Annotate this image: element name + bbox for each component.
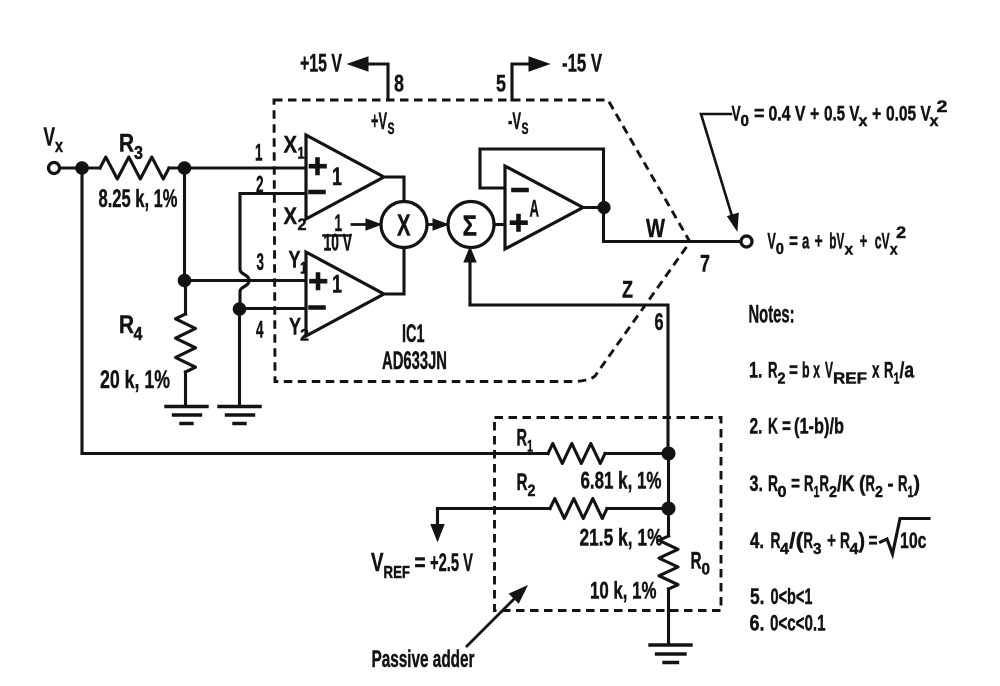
svg-text:=: = — [754, 103, 764, 126]
svg-text:REF: REF — [384, 562, 411, 582]
wire summer bottom arrow stem — [468, 261, 471, 305]
svg-text:2: 2 — [778, 371, 786, 388]
svg-text:R: R — [119, 311, 134, 339]
svg-text:2: 2 — [937, 97, 948, 116]
svg-text:x: x — [872, 358, 880, 383]
svg-text:(1-b)/b: (1-b)/b — [794, 414, 844, 439]
svg-text:0.4 V: 0.4 V — [769, 103, 806, 126]
IC1 dashed outline — [274, 100, 690, 382]
output terminal — [741, 236, 752, 247]
svg-text:=: = — [869, 528, 878, 553]
arrow multiplier to summer — [428, 223, 436, 226]
node after R3 — [178, 161, 192, 175]
wire A output to node — [583, 206, 604, 209]
wire X buffer output to multiplier — [384, 177, 404, 202]
svg-text:b x: b x — [802, 358, 820, 383]
wire feedback loop of op-amp A — [480, 149, 604, 208]
svg-text:0.05 V: 0.05 V — [886, 103, 931, 126]
svg-text:x: x — [55, 136, 63, 156]
svg-text:0: 0 — [778, 484, 787, 501]
svg-text:Notes:: Notes: — [749, 301, 795, 329]
wire between R1 and R2 nodes down to R0 — [667, 454, 670, 537]
svg-text:x: x — [845, 242, 854, 259]
svg-text:V: V — [825, 358, 833, 383]
wire Z from summer arrow to pin 6 — [470, 305, 668, 454]
arrowhead +15V — [348, 57, 368, 71]
svg-text:0: 0 — [702, 560, 711, 579]
svg-text:1: 1 — [332, 163, 342, 191]
wire Y2 node to ground — [238, 309, 241, 405]
minus sign in A — [514, 188, 527, 193]
plus sign in X buffer — [311, 160, 325, 174]
wire from R3 node down to Y1 node — [183, 168, 186, 281]
svg-text:0<c<0.1: 0<c<0.1 — [770, 611, 826, 636]
svg-text:2: 2 — [875, 484, 883, 501]
plus sign in Y buffer — [312, 275, 326, 289]
svg-text:20 k, 1%: 20 k, 1% — [100, 366, 170, 394]
svg-text:=: = — [789, 229, 798, 254]
svg-text:R: R — [884, 358, 894, 383]
svg-text:3: 3 — [813, 541, 822, 558]
op-amp buffer Y (Y1/Y2) — [306, 252, 384, 336]
svg-text:1.: 1. — [749, 358, 763, 383]
wire VREF arrow stem — [436, 509, 439, 526]
ground under R4 — [166, 407, 207, 424]
wire pin 4 (Y2 input) — [240, 307, 307, 310]
arrow into multiplier — [352, 223, 368, 226]
svg-text:-15 V: -15 V — [562, 50, 602, 78]
svg-text:4: 4 — [256, 317, 264, 344]
arrowhead leader — [728, 213, 739, 230]
svg-text:AD633JN: AD633JN — [382, 347, 447, 375]
arrow to passive adder box — [467, 597, 516, 646]
arrowhead into summer — [464, 248, 476, 263]
fraction bar of 1/10V — [324, 234, 349, 237]
svg-text:/(: /( — [789, 528, 804, 553]
svg-text:4.: 4. — [750, 528, 764, 553]
wire R3 to pin 1 (X1 input) — [169, 166, 306, 169]
ground under X2/Y2 — [219, 407, 260, 424]
svg-text:2: 2 — [896, 223, 906, 242]
svg-text:=: = — [789, 358, 798, 383]
svg-text:+15 V: +15 V — [300, 50, 342, 78]
svg-text:K: K — [768, 414, 778, 439]
note 4 — [750, 528, 927, 558]
svg-text:V: V — [44, 122, 56, 152]
wire R0 to ground — [667, 589, 670, 644]
wire left vertical from Vx node down to R1 row — [80, 168, 83, 454]
svg-text:R: R — [517, 425, 528, 452]
svg-text:): ) — [859, 528, 866, 553]
svg-text:0: 0 — [741, 113, 750, 130]
svg-text:R: R — [804, 471, 814, 496]
svg-text:0: 0 — [776, 241, 784, 258]
svg-text:+: + — [860, 229, 868, 254]
svg-text:+: + — [827, 528, 836, 553]
wire Y buffer output to multiplier — [384, 248, 404, 295]
svg-text:X: X — [397, 208, 411, 243]
arrowhead VREF down — [431, 525, 444, 542]
wire W output to terminal pin 7 — [604, 208, 741, 242]
svg-text:2: 2 — [300, 326, 309, 345]
svg-text:R: R — [119, 130, 134, 158]
svg-text:S: S — [522, 119, 529, 138]
svg-text:R: R — [866, 471, 876, 496]
wire hop to Y2 node — [238, 292, 241, 309]
svg-text:x: x — [890, 242, 898, 259]
power pin 8 wire — [367, 64, 388, 100]
resistor R1 — [548, 444, 605, 464]
svg-text:8.25 k, 1%: 8.25 k, 1% — [99, 185, 178, 213]
svg-text:2: 2 — [528, 481, 536, 500]
arrowhead passive adder — [510, 586, 528, 603]
note 2 — [750, 414, 845, 439]
resistor R0 — [659, 536, 678, 589]
summer circle — [448, 202, 494, 248]
svg-text:cV: cV — [875, 229, 890, 254]
svg-text:/K: /K — [837, 471, 855, 496]
minus sign in Y buffer — [311, 305, 324, 310]
svg-text:+: + — [872, 103, 881, 126]
svg-text:=: = — [791, 471, 800, 496]
svg-text:R: R — [691, 548, 702, 575]
svg-text:+: + — [810, 103, 819, 126]
svg-text:0.5 V: 0.5 V — [824, 103, 860, 126]
svg-text:x: x — [859, 113, 868, 130]
svg-text:3: 3 — [134, 143, 143, 163]
node W output — [597, 201, 610, 214]
svg-text:W: W — [646, 213, 665, 243]
node X2/Y2 ground junction — [233, 302, 247, 316]
svg-text:V: V — [371, 547, 384, 577]
wire hop over Y1 wire — [240, 269, 249, 292]
op-amp A — [505, 166, 583, 249]
wire summer to op-amp A plus input — [494, 223, 505, 226]
node R1 junction — [662, 447, 676, 461]
svg-text:+: + — [815, 229, 823, 254]
svg-text:a: a — [802, 229, 810, 254]
svg-text:Z: Z — [622, 277, 633, 304]
svg-text:1: 1 — [298, 144, 305, 163]
svg-text:Passive adder: Passive adder — [372, 646, 475, 673]
svg-text:IC1: IC1 — [402, 320, 425, 348]
node at Vx junction — [75, 161, 89, 175]
svg-text:10 k, 1%: 10 k, 1% — [590, 578, 657, 605]
svg-text:+V: +V — [371, 108, 387, 135]
wire pin 3 (Y1 input) — [185, 279, 307, 282]
svg-text:/a: /a — [900, 358, 915, 383]
svg-text:R: R — [517, 469, 528, 496]
svg-text:4: 4 — [134, 324, 143, 344]
svg-text:6.: 6. — [750, 611, 765, 636]
minus sign in X buffer — [311, 190, 324, 195]
svg-text:X: X — [284, 132, 298, 159]
multiplier circle X — [381, 202, 427, 248]
svg-text:2.: 2. — [750, 414, 763, 439]
svg-text:1: 1 — [255, 140, 263, 167]
resistor R4 — [176, 314, 196, 372]
power pin 5 wire — [512, 64, 530, 100]
input terminal Vx — [49, 163, 60, 174]
svg-text:8: 8 — [394, 71, 404, 98]
note 6 — [750, 611, 826, 636]
svg-text:-: - — [888, 471, 894, 496]
svg-text:=: = — [415, 549, 426, 577]
svg-text:+2.5 V: +2.5 V — [430, 549, 473, 577]
wire pin 2 (X2 input) — [240, 194, 306, 270]
plus sign in A — [512, 216, 526, 230]
svg-text:1: 1 — [332, 271, 342, 299]
radical sign in note 4 — [881, 519, 930, 555]
svg-text:V: V — [732, 103, 741, 126]
svg-text:R: R — [898, 471, 908, 496]
leader line for output formula — [701, 114, 734, 221]
svg-text:): ) — [914, 471, 921, 496]
formula V0 = 0.4V + 0.5Vx + 0.05Vx2 — [732, 97, 948, 130]
node Y1 divider — [178, 274, 192, 288]
note 3 — [750, 471, 921, 501]
op-amp buffer X (X1/X2) — [306, 135, 384, 219]
svg-text:6: 6 — [655, 309, 664, 336]
svg-text:6.81 k, 1%: 6.81 k, 1% — [581, 468, 662, 495]
svg-text:=: = — [782, 414, 791, 439]
svg-text:0<b<1: 0<b<1 — [771, 584, 813, 609]
svg-text:3.: 3. — [750, 471, 764, 496]
wire Y1 node down to R4 — [184, 281, 187, 315]
resistor R3 — [100, 157, 169, 179]
svg-text:R: R — [804, 528, 814, 553]
svg-text:1: 1 — [527, 437, 533, 456]
note 5 — [750, 584, 813, 609]
svg-text:2: 2 — [256, 172, 264, 199]
formula V0 = a + bVx + cVx2 — [767, 223, 906, 259]
svg-text:X: X — [284, 203, 298, 230]
passive adder dashed box — [495, 418, 722, 611]
svg-text:2: 2 — [829, 484, 837, 501]
resistor R2 — [550, 499, 607, 519]
svg-text:Y: Y — [289, 247, 301, 274]
wire R1 row — [82, 452, 669, 455]
svg-text:bV: bV — [829, 229, 844, 254]
wire R4 to ground — [184, 372, 187, 405]
svg-text:R: R — [820, 471, 830, 496]
svg-text:10c: 10c — [900, 528, 927, 553]
ground under R0 — [650, 645, 691, 663]
node R2 junction — [662, 502, 676, 516]
wire R2 row — [438, 507, 669, 510]
svg-text:-V: -V — [508, 108, 521, 135]
svg-text:REF: REF — [833, 371, 867, 388]
svg-text:4: 4 — [850, 541, 859, 558]
svg-text:5: 5 — [496, 71, 506, 98]
svg-text:Σ: Σ — [463, 211, 478, 243]
svg-text:4: 4 — [780, 541, 789, 558]
svg-text:21.5 k, 1%: 21.5 k, 1% — [580, 525, 663, 552]
svg-text:S: S — [388, 119, 395, 138]
svg-text:A: A — [530, 196, 540, 223]
svg-text:5.: 5. — [750, 584, 765, 609]
wire Vx to R3 — [60, 166, 100, 169]
svg-text:10 V: 10 V — [324, 230, 353, 257]
svg-text:3: 3 — [257, 249, 265, 276]
svg-text:1: 1 — [300, 259, 307, 278]
svg-text:R: R — [768, 358, 778, 383]
svg-text:2: 2 — [298, 215, 307, 234]
svg-text:7: 7 — [700, 251, 710, 278]
arrowhead -15V — [529, 57, 549, 71]
note 1 — [749, 358, 915, 388]
